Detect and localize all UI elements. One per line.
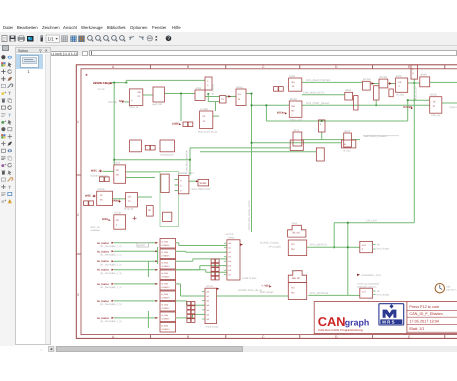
svg-text:B/CbG: B/CbG xyxy=(380,76,388,79)
svg-text:mOq_ag: mOq_ag xyxy=(431,114,441,117)
svg-text:Cb: Cb xyxy=(116,169,120,172)
svg-text:B_RvB: B_RvB xyxy=(162,324,169,327)
toolbar icons: undo redo xyxy=(130,37,134,40)
svg-text:M: M xyxy=(238,98,240,101)
svg-text:B15g: B15g xyxy=(237,86,244,89)
component U25 1C-YY xyxy=(126,193,138,207)
chain R-S-T-U xyxy=(370,83,379,85)
left tool palette icons xyxy=(1,55,5,59)
component U8 3159 xyxy=(289,78,302,91)
svg-text:Oqa 5W 2,1q(q): Oqa 5W 2,1q(q) xyxy=(446,289,457,292)
svg-text:io5: io5 xyxy=(206,313,210,316)
svg-text:io6: io6 xyxy=(206,318,210,321)
svg-text:ouT: ouT xyxy=(362,244,367,247)
selected page thumbnail xyxy=(16,54,43,70)
component U15 xyxy=(363,81,371,90)
AB-AD link xyxy=(113,198,126,200)
wire CAN_MSG_ACTD xyxy=(302,94,345,96)
component U21 BC38 xyxy=(430,97,442,114)
component U12 vert on wire xyxy=(318,120,325,132)
svg-text:5009: 5009 xyxy=(102,218,108,221)
svg-text:CAN-Bus Inside Programmierun: CAN-Bus Inside Programmierung xyxy=(318,328,363,332)
component U37 notched xyxy=(288,225,306,237)
svg-text:MTaL_M: MTaL_M xyxy=(129,106,138,109)
svg-text:BYB5B 2ULY: BYB5B 2ULY xyxy=(179,172,195,175)
svg-text:CPU_OqZw: CPU_OqZw xyxy=(269,246,282,249)
svg-text:CPU_SWITCH2: CPU_SWITCH2 xyxy=(310,292,329,295)
svg-text:B_RvB: B_RvB xyxy=(162,261,169,264)
svg-text:Fa: Fa xyxy=(238,93,241,96)
component U28 in group xyxy=(161,174,169,192)
wire SYS_REACTIVATED xyxy=(302,81,363,83)
svg-text:BBL M1: BBL M1 xyxy=(292,277,301,280)
svg-text:1/C: 1/C xyxy=(128,196,132,199)
svg-text:CPU_SWITCH: CPU_SWITCH xyxy=(310,244,327,247)
component U32 xyxy=(160,140,174,152)
svg-text:aid TbK: aid TbK xyxy=(226,233,234,236)
toolbar icon: export image xyxy=(27,36,34,42)
svg-text:Waq_ty and aB_tyf: Waq_ty and aB_tyf xyxy=(198,130,218,133)
svg-text:4YNBDS: 4YNBDS xyxy=(162,265,171,268)
svg-text:Out: Out xyxy=(105,269,109,272)
svg-text:/A_5Nq: /A_5Nq xyxy=(396,94,404,97)
svg-text:OB: OB xyxy=(291,105,295,108)
svg-text:4YNBDS: 4YNBDS xyxy=(162,328,171,331)
svg-text:(XL_DanVqjBw_1_3): (XL_DanVqjBw_1_3) xyxy=(100,272,122,275)
component U16 xyxy=(379,79,388,88)
svg-text:HL: HL xyxy=(343,143,347,146)
AJ-AK link xyxy=(189,180,198,182)
svg-text:4177: 4177 xyxy=(294,129,300,132)
svg-text:B_RvB: B_RvB xyxy=(162,314,169,317)
svg-text:DL: DL xyxy=(203,115,207,118)
coordinate combo xyxy=(47,51,78,57)
svg-text:C8B: C8B xyxy=(446,285,451,288)
svg-text:M1: M1 xyxy=(116,173,120,176)
svg-text:(XL_DanVqjBw_1_4): (XL_DanVqjBw_1_4) xyxy=(100,286,122,289)
svg-text:CAN_BUS_WAKEUP: CAN_BUS_WAKEUP xyxy=(186,150,189,172)
svg-text:7: 7 xyxy=(291,114,293,117)
svg-text:bO: bO xyxy=(291,287,294,290)
svg-text:4YNBDS: 4YNBDS xyxy=(162,244,171,247)
wire y100 right xyxy=(408,99,430,101)
svg-text:YY: YY xyxy=(128,200,132,203)
P Q links xyxy=(302,139,344,141)
component R1 pair xyxy=(183,122,188,127)
svg-text:SB: SB xyxy=(137,91,141,94)
svg-text:13: 13 xyxy=(221,98,224,101)
svg-text:2: 2 xyxy=(77,213,79,217)
svg-text:io0: io0 xyxy=(228,242,232,245)
svg-text:Avhqr to qqb: Avhqr to qqb xyxy=(205,325,219,328)
svg-text:(XL_DanVqjBw_1_6): (XL_DanVqjBw_1_6) xyxy=(100,320,122,323)
svg-text:(XL_DanVqjBw_1_2): (XL_DanVqjBw_1_2) xyxy=(100,264,122,267)
wire net top-left xyxy=(111,82,127,84)
connector J1 tall xyxy=(227,240,240,280)
clock icon xyxy=(435,284,444,293)
toolbar icon: save xyxy=(10,36,16,42)
svg-text:Out: Out xyxy=(105,260,109,263)
svg-text:io1: io1 xyxy=(228,247,232,250)
svg-text:BCAD: BCAD xyxy=(290,98,297,101)
component U7 delay xyxy=(200,111,213,129)
small grey component box xyxy=(137,243,149,247)
wire y121 xyxy=(266,120,407,122)
command row background xyxy=(0,46,457,56)
component R3 pair xyxy=(99,177,104,182)
component U14 4074 xyxy=(344,133,352,147)
svg-text:ICCO(B: ICCO(B xyxy=(403,106,412,109)
component U2 xyxy=(153,87,164,102)
toolbar icons: zoom tools xyxy=(88,36,93,41)
svg-text:(XL_DanVqjBw_1_0): (XL_DanVqjBw_1_0) xyxy=(100,245,122,248)
svg-text:Cb: Cb xyxy=(116,219,120,222)
svg-text:Blatt: 1/1: Blatt: 1/1 xyxy=(409,327,424,331)
component U27 tcC2b xyxy=(114,215,126,229)
component U33 xyxy=(130,140,142,152)
pages panel xyxy=(15,47,51,345)
component U3 vertical xyxy=(205,77,212,90)
svg-text:b: b xyxy=(362,248,364,251)
svg-text:1: 1 xyxy=(77,120,79,124)
svg-text:1E: 1E xyxy=(100,194,103,197)
svg-text:4188: 4188 xyxy=(291,270,297,273)
svg-text:B_RvB: B_RvB xyxy=(162,303,169,306)
svg-text:NTC: NTC xyxy=(119,100,124,103)
connector J4 grid xyxy=(187,302,191,306)
toolbar icon: print xyxy=(18,37,25,41)
svg-text:W_2YBNB: W_2YBNB xyxy=(212,84,215,95)
svg-text:io5: io5 xyxy=(228,265,232,268)
svg-text:B15F: B15F xyxy=(396,75,403,78)
wire CPU_SWITCH2 xyxy=(308,294,348,296)
IO box stack xyxy=(160,239,176,249)
svg-text:44: 44 xyxy=(292,85,295,88)
svg-text:3159: 3159 xyxy=(289,75,295,78)
svg-text:M_WSE_V4.0(qq): M_WSE_V4.0(qq) xyxy=(260,241,279,244)
component U4 xyxy=(195,90,205,101)
svg-text:+_VB.0: +_VB.0 xyxy=(261,285,270,288)
svg-text:SYS_5uNq2: SYS_5uNq2 xyxy=(377,293,390,296)
svg-text:T: T xyxy=(8,113,11,118)
component U41 out xyxy=(360,241,373,252)
component U36 HL5oq xyxy=(341,140,355,148)
wire row y93.5 xyxy=(164,93,195,95)
svg-text:65C9a: 65C9a xyxy=(277,112,285,115)
MRS logo xyxy=(379,304,404,325)
component U5 xyxy=(220,96,227,103)
svg-text:T: T xyxy=(8,185,11,190)
svg-text:+B: +B xyxy=(377,243,380,246)
toolbar icon: new document xyxy=(2,36,7,42)
svg-text:4143: 4143 xyxy=(292,222,298,225)
svg-text:M2: M2 xyxy=(291,292,295,295)
svg-text:BC38: BC38 xyxy=(430,94,437,97)
svg-text:io7: io7 xyxy=(228,274,232,277)
svg-text:B_RvB: B_RvB xyxy=(162,282,169,285)
wire fan to CAN connector xyxy=(176,242,179,244)
wire fan lower xyxy=(176,283,181,285)
svg-text:CAN_ID_F_Efavten: CAN_ID_F_Efavten xyxy=(409,312,442,316)
svg-text:SWITCHED_ENABLE: SWITCHED_ENABLE xyxy=(364,135,388,138)
svg-text:tcC2b: tcC2b xyxy=(114,212,121,215)
frame column ticks xyxy=(150,65,152,69)
svg-text:bO: bO xyxy=(291,243,294,246)
svg-text:4A: 4A xyxy=(100,199,103,202)
net VARIABLE_OUT xyxy=(357,274,360,276)
title block frame xyxy=(314,302,457,334)
svg-text:M: M xyxy=(433,105,435,108)
svg-text:F(M5_5aNq2: F(M5_5aNq2 xyxy=(260,291,274,294)
component U1 switch-timer xyxy=(129,89,142,106)
svg-text:4054: 4054 xyxy=(345,89,351,92)
svg-text:41: 41 xyxy=(203,120,206,123)
svg-text:bF: bF xyxy=(399,81,402,84)
title block rows xyxy=(407,309,457,311)
svg-text:b: b xyxy=(413,68,415,71)
wires middle rows y142-152 xyxy=(252,142,342,144)
group rectangle xyxy=(160,172,178,227)
svg-text:B_RvB: B_RvB xyxy=(162,272,169,275)
component R4 pair xyxy=(84,201,89,206)
component U20 vert xyxy=(374,86,380,100)
toolbar icon: layer tool xyxy=(41,36,43,42)
svg-text:4074: 4074 xyxy=(344,130,350,133)
component U42 out2 xyxy=(360,288,373,298)
menu bar xyxy=(0,25,457,33)
svg-text:SCMA: SCMA xyxy=(200,182,207,185)
svg-text:CC1/N: CC1/N xyxy=(206,285,213,288)
frame row ticks xyxy=(76,174,81,176)
component U24 A-TEE xyxy=(97,191,113,205)
component U30 BYB5B xyxy=(178,175,189,193)
svg-text:4040r: 4040r xyxy=(420,74,427,77)
svg-text:17.05.2017 13:04: 17.05.2017 13:04 xyxy=(409,320,439,324)
svg-text:A/1B: A/1B xyxy=(196,87,202,90)
svg-text:1/1: 1/1 xyxy=(48,37,55,42)
schematic sheet frame xyxy=(76,65,457,339)
svg-text:TRL M1: TRL M1 xyxy=(292,232,301,235)
svg-text:AvOB To RvN: AvOB To RvN xyxy=(242,277,256,280)
component U10 4054 xyxy=(345,92,353,100)
svg-text:y: y xyxy=(131,99,133,102)
svg-text:io6: io6 xyxy=(228,269,232,272)
wire from frame top component down xyxy=(413,79,415,223)
svg-text:(XL_DanVqjBw_1_1): (XL_DanVqjBw_1_1) xyxy=(100,254,122,257)
svg-text:b: b xyxy=(413,72,415,75)
svg-text:MRS: MRS xyxy=(382,320,395,325)
component U19 vert xyxy=(389,89,393,97)
component U23 4143 xyxy=(114,165,126,183)
component U29 in group xyxy=(163,212,172,221)
svg-text:M1: M1 xyxy=(291,110,295,113)
command entry xyxy=(89,50,457,56)
component U34 xyxy=(290,140,303,151)
svg-text:Bq: Bq xyxy=(292,81,296,84)
wire SYS_POST_DELAY xyxy=(252,104,290,106)
svg-text:SWITCHED_MODE_ACTIV: SWITCHED_MODE_ACTIV xyxy=(248,200,251,230)
svg-text:?: ? xyxy=(167,36,170,42)
svg-text:WSC_1B: WSC_1B xyxy=(90,226,100,229)
toolbar combo xyxy=(46,35,60,43)
svg-text:io2: io2 xyxy=(228,251,232,254)
svg-text:Urqlawed: Urqlawed xyxy=(90,229,100,232)
svg-text:(XL_DanVqjBw_1_5): (XL_DanVqjBw_1_5) xyxy=(100,303,122,306)
wire jogs D-E-G cluster xyxy=(207,93,209,95)
svg-text:3: 3 xyxy=(77,293,79,297)
component U35 vert xyxy=(316,148,324,161)
svg-text:qRRRR: qRRRR xyxy=(138,244,145,247)
component U9 BCAD xyxy=(289,101,302,117)
svg-text:2202B KBq: 2202B KBq xyxy=(93,81,109,85)
toolbar background xyxy=(0,32,457,46)
svg-text:(CEMAP_MOG_HB_qq: (CEMAP_MOG_HB_qq xyxy=(238,289,263,292)
svg-text:1TbNe_qq_5aNq2(B)a: 1TbNe_qq_5aNq2(B)a xyxy=(357,282,380,285)
svg-text:4143: 4143 xyxy=(114,162,120,165)
svg-text:4YNBDS: 4YNBDS xyxy=(162,297,171,300)
svg-text:CAN_MSG_ACTD: CAN_MSG_ACTD xyxy=(303,92,324,95)
component U39 notched BBL xyxy=(288,271,306,283)
component U17 B15F xyxy=(396,78,408,92)
svg-text:2/5Caq_5/T: 2/5Caq_5/T xyxy=(290,119,303,122)
component U11 vert xyxy=(354,96,358,110)
component R2 pair xyxy=(274,87,279,92)
svg-text:Press F12 to com: Press F12 to com xyxy=(409,305,439,309)
connector J3 tall xyxy=(205,288,217,323)
wire CPU_INT xyxy=(334,222,414,224)
sheet origin mark xyxy=(86,74,88,76)
svg-text:2/5Mq: 2/5Mq xyxy=(228,236,235,239)
svg-text:V1.10: V1.10 xyxy=(98,88,105,91)
component U6 xyxy=(236,89,246,106)
svg-text:SEqy_tyf: SEqy_tyf xyxy=(124,207,134,210)
svg-text:CAN: CAN xyxy=(318,314,346,329)
svg-text:io3: io3 xyxy=(206,304,210,307)
svg-text:CPU_INT: CPU_INT xyxy=(366,220,378,223)
svg-text:NTC2(B): NTC2(B) xyxy=(108,101,117,104)
svg-text:b: b xyxy=(180,184,182,187)
svg-text:Out: Out xyxy=(105,317,109,320)
svg-text:Out: Out xyxy=(105,283,109,286)
panel scroll strip xyxy=(45,54,50,344)
svg-text:SYS_REACTIVATED: SYS_REACTIVATED xyxy=(306,79,331,82)
component U26 vert MI xyxy=(147,206,154,217)
vertical bus x251.5 xyxy=(251,94,253,233)
svg-text:T: T xyxy=(8,91,11,96)
left sidebar background xyxy=(0,46,15,346)
svg-text:qaqF_GB: qaqF_GB xyxy=(152,103,162,106)
svg-text:Out: Out xyxy=(105,242,109,245)
toolbar icon: stop xyxy=(147,36,152,41)
wire y159.7 xyxy=(114,159,190,161)
svg-text:1DBE: 1DBE xyxy=(172,122,179,125)
plus sign xyxy=(133,217,137,219)
svg-text:B_RvB: B_RvB xyxy=(162,293,169,296)
component U18 4040 xyxy=(420,77,430,87)
svg-text:B_RvB: B_RvB xyxy=(162,240,169,243)
svg-text:o: o xyxy=(320,123,322,126)
component U31 SCMA xyxy=(198,179,209,186)
svg-text:M2: M2 xyxy=(291,248,295,251)
component U40 cpu2 xyxy=(288,283,306,300)
toolbar icon: help xyxy=(166,36,172,42)
svg-text:SYS_5uNq2: SYS_5uNq2 xyxy=(377,248,390,251)
component U13 4177 xyxy=(293,132,302,146)
svg-text:io0: io0 xyxy=(206,290,210,293)
svg-text:2: 2 xyxy=(116,223,118,226)
svg-text:B.U5A: B.U5A xyxy=(363,78,371,81)
connector J2 grid xyxy=(211,259,215,263)
svg-text:+B: +B xyxy=(377,290,380,293)
Z pins into group xyxy=(126,171,160,173)
svg-text:HL 5oq: HL 5oq xyxy=(343,150,351,153)
svg-text:VE: VE xyxy=(433,101,437,104)
svg-text:io2: io2 xyxy=(206,300,210,303)
svg-text:Out: Out xyxy=(105,300,109,303)
svg-text:io3: io3 xyxy=(228,256,232,259)
svg-text:A/TEE: A/TEE xyxy=(97,188,105,191)
svg-text:A.1/3B: A.1/3B xyxy=(200,108,208,111)
row jog wires xyxy=(147,261,149,277)
svg-text:b: b xyxy=(180,179,182,182)
svg-text:io1: io1 xyxy=(206,295,210,298)
svg-text:Out: Out xyxy=(105,250,109,253)
svg-text:4YNBDS: 4YNBDS xyxy=(162,286,171,289)
svg-text:Compacqimti: Compacqimti xyxy=(160,154,174,157)
component U38 cpu xyxy=(288,240,306,256)
svg-text:24: 24 xyxy=(137,95,140,98)
component R5 pair xyxy=(145,145,150,150)
svg-text:BUS_SLEEP: BUS_SLEEP xyxy=(415,86,418,100)
svg-text:4YNBDS: 4YNBDS xyxy=(162,318,171,321)
svg-text:4YNBDS: 4YNBDS xyxy=(162,255,171,258)
svg-text:o: o xyxy=(207,80,209,83)
svg-text:MI: MI xyxy=(148,209,151,212)
small icon under toolbar xyxy=(2,45,9,52)
svg-text:4YNBDS: 4YNBDS xyxy=(162,307,171,310)
svg-text:4YNBDS: 4YNBDS xyxy=(162,276,171,279)
svg-text:io4: io4 xyxy=(228,260,232,263)
svg-text:io4: io4 xyxy=(206,309,210,312)
svg-text:graph: graph xyxy=(345,318,369,328)
svg-text:PQac4: PQac4 xyxy=(450,106,457,109)
component U22 on frame xyxy=(411,65,418,79)
toolbar icon: grid xyxy=(62,36,68,42)
svg-text:+xVARIABLE_OUT: +xVARIABLE_OUT xyxy=(361,274,382,277)
svg-text:SYS_POST_DELAY: SYS_POST_DELAY xyxy=(306,102,330,105)
svg-text:2: 2 xyxy=(399,85,401,88)
bottom scrollbar xyxy=(41,346,43,351)
svg-text:WAA- PRBUYOAY: WAA- PRBUYOAY xyxy=(192,188,212,191)
svg-text:B_RvB: B_RvB xyxy=(162,251,169,254)
svg-text:b: b xyxy=(180,189,182,192)
wire CPU_SWITCH xyxy=(307,246,348,248)
svg-text:ouT: ouT xyxy=(362,291,367,294)
svg-text:o: o xyxy=(207,84,209,87)
